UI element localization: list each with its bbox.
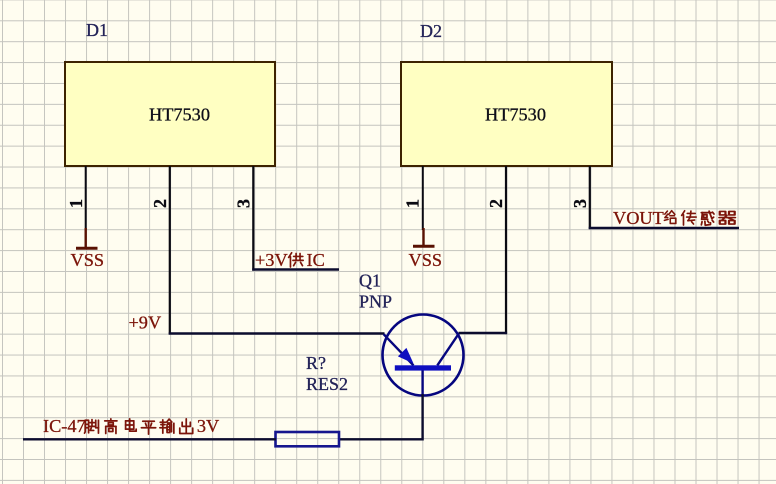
svg-text:2: 2 (150, 199, 170, 208)
pin 3 of D1 (252, 166, 254, 271)
wire +3V from D1 pin 3 (252, 268, 339, 270)
svg-text:HT7530: HT7530 (149, 105, 210, 125)
svg-text:HT7530: HT7530 (485, 105, 546, 125)
pin 1 of D2 (422, 166, 424, 230)
svg-text:3V: 3V (197, 416, 219, 436)
pin 2 of D1 (169, 166, 171, 335)
wire +9V from D1 pin 2 to Q1 emitter (169, 332, 385, 334)
wire from D2 pin 2 down to Q1 collector (459, 332, 508, 334)
transistor Q1 emitter diagonal (384, 334, 414, 365)
voltage regulator D1 body (65, 62, 275, 166)
svg-text:VSS: VSS (71, 250, 105, 270)
pin 1 of D1 (85, 166, 87, 230)
transistor Q1 base bar (395, 365, 451, 370)
transistor Q1 base lead (421, 371, 423, 397)
resistor R? body (276, 432, 340, 446)
pin 3 of D2 (589, 166, 591, 229)
svg-text:PNP: PNP (359, 292, 392, 312)
transistor Q1 (PNP) circle (383, 315, 464, 396)
voltage regulator D2 body (401, 62, 612, 166)
svg-text:VSS: VSS (409, 250, 443, 270)
svg-text:+3V: +3V (255, 250, 288, 270)
wire IC-47 input to resistor (23, 438, 276, 440)
svg-text:D1: D1 (86, 20, 108, 40)
svg-text:3: 3 (234, 199, 254, 208)
ground power port VSS (D2) (413, 228, 435, 246)
svg-text:R?: R? (306, 353, 326, 373)
wire from Q1 base to resistor (339, 394, 423, 439)
transistor Q1 collector diagonal (437, 333, 459, 365)
ground power port VSS (D1) (76, 228, 98, 248)
svg-text:1: 1 (66, 199, 86, 208)
svg-text:Q1: Q1 (359, 271, 381, 291)
svg-text:RES2: RES2 (306, 374, 348, 394)
transistor Q1 emitter arrow (398, 348, 414, 364)
svg-text:IC-47: IC-47 (43, 416, 86, 436)
wire VOUT from D2 pin 3 (589, 227, 739, 229)
svg-text:D2: D2 (420, 21, 442, 41)
svg-text:VOUT: VOUT (613, 208, 664, 228)
svg-text:3: 3 (570, 199, 590, 208)
svg-text:1: 1 (403, 199, 423, 208)
svg-text:+9V: +9V (129, 313, 162, 333)
svg-text:2: 2 (486, 199, 506, 208)
svg-text:IC: IC (307, 250, 325, 270)
pin 2 of D2 (505, 166, 507, 334)
